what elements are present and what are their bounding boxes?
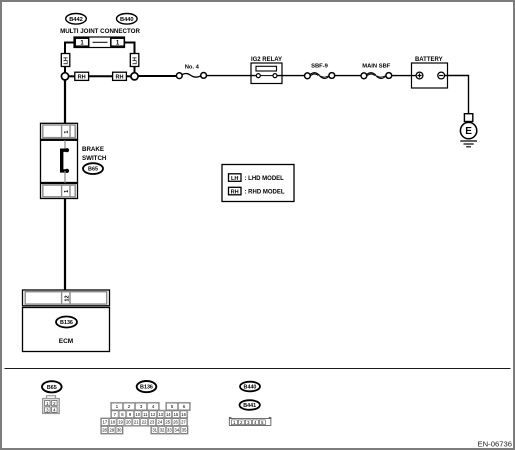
- fuse MAIN SBF label: [362, 63, 390, 69]
- connector B65 oval: [83, 163, 103, 174]
- wire MAIN SBF to battery: [392, 75, 416, 77]
- svg-text:25: 25: [165, 420, 170, 425]
- ECM connector pin 12: [23, 290, 110, 306]
- junction left: [61, 73, 68, 80]
- svg-text:16: 16: [181, 412, 186, 417]
- MJC pin 1 left: [75, 38, 89, 46]
- bottom connector B136 pinout: [101, 402, 191, 434]
- svg-text:EN-06736: EN-06736: [478, 439, 513, 448]
- fuse SBF-9: [305, 73, 335, 79]
- svg-text:: LHD MODEL: : LHD MODEL: [245, 176, 285, 182]
- svg-text:RH: RH: [115, 75, 123, 81]
- svg-text:29: 29: [110, 427, 115, 432]
- connector B442: [66, 13, 87, 24]
- ECM box: [23, 308, 110, 352]
- legend RH: [229, 187, 285, 195]
- svg-text:14: 14: [166, 412, 171, 417]
- wire RH1 to RH2: [89, 75, 113, 77]
- svg-text:6: 6: [183, 404, 186, 409]
- svg-text:19: 19: [118, 420, 123, 425]
- legend box: [222, 165, 294, 202]
- LH box right: [130, 54, 139, 67]
- bottom connector B440 oval: [240, 382, 260, 392]
- svg-text:31: 31: [152, 427, 157, 432]
- multi joint connector symbol: [74, 37, 125, 48]
- svg-text:32: 32: [160, 427, 165, 432]
- svg-text:B440: B440: [120, 17, 134, 23]
- brake switch contact: [62, 148, 69, 173]
- svg-text:12: 12: [151, 412, 156, 417]
- svg-text:LH: LH: [63, 57, 69, 64]
- svg-text:27: 27: [181, 420, 186, 425]
- svg-text:1: 1: [64, 131, 70, 134]
- svg-text:BRAKE: BRAKE: [82, 146, 104, 153]
- wire brake switch to ECM: [64, 199, 66, 292]
- RH box 1: [75, 72, 89, 81]
- brake switch top connector: [41, 123, 78, 139]
- svg-text:ECM: ECM: [59, 338, 73, 345]
- svg-text:B136: B136: [140, 385, 153, 391]
- wire fuse No.4 to IG2 relay: [207, 75, 257, 77]
- fuse No. 4 label: [185, 65, 200, 71]
- ground connector square: [464, 114, 472, 122]
- connector B440: [117, 13, 138, 24]
- svg-text:B441: B441: [243, 403, 256, 409]
- junction right: [131, 73, 138, 80]
- svg-text:15: 15: [174, 412, 179, 417]
- bottom connector B441 oval: [240, 400, 260, 410]
- bottom connector B65 pinout: [43, 396, 60, 414]
- svg-text:4: 4: [152, 404, 155, 409]
- svg-text:18: 18: [110, 420, 115, 425]
- svg-text:13: 13: [158, 412, 163, 417]
- svg-text:35: 35: [182, 427, 187, 432]
- brake switch internal lead bottom: [64, 171, 66, 184]
- svg-text:2: 2: [128, 404, 131, 409]
- svg-text:5: 5: [171, 404, 174, 409]
- IG2 relay label: [251, 57, 282, 63]
- relay U1 IG2 RELAY: [251, 63, 282, 84]
- RH box 2: [113, 72, 127, 81]
- wire junction left to RH box: [69, 75, 75, 77]
- svg-text:RH: RH: [231, 189, 239, 195]
- svg-text:26: 26: [173, 420, 178, 425]
- svg-text:E: E: [465, 126, 472, 137]
- svg-text:BATTERY: BATTERY: [415, 57, 443, 63]
- wire MJC left to LH box: [65, 43, 74, 54]
- ECM label: [59, 338, 73, 345]
- MJC pin 1 right: [111, 38, 125, 46]
- svg-text:1: 1: [116, 404, 119, 409]
- svg-text:: RHD MODEL: : RHD MODEL: [245, 190, 285, 196]
- svg-text:24: 24: [158, 420, 163, 425]
- wire RH2 to junction right: [126, 75, 130, 77]
- svg-text:B136: B136: [60, 320, 73, 326]
- svg-text:11: 11: [143, 412, 148, 417]
- svg-text:RH: RH: [78, 75, 86, 81]
- svg-text:B65: B65: [88, 167, 98, 173]
- svg-text:20: 20: [126, 420, 131, 425]
- ground E: [460, 122, 477, 146]
- wire LH left to junction: [64, 67, 66, 73]
- figure number EN-06736: [478, 439, 513, 448]
- fuse SBF-9 label: [311, 63, 329, 69]
- multi joint connector label: [60, 28, 140, 35]
- LH box left: [61, 54, 70, 67]
- brake switch body: [41, 140, 78, 182]
- svg-text:30: 30: [117, 427, 122, 432]
- brake switch bottom connector: [41, 184, 78, 199]
- brake switch label: [82, 146, 107, 162]
- svg-text:12: 12: [64, 295, 70, 301]
- wire LH right to junction: [134, 67, 136, 73]
- svg-text:23: 23: [150, 420, 155, 425]
- brake switch internal lead top: [64, 140, 66, 150]
- wire junction right to fuse No.4: [138, 75, 177, 77]
- svg-text:34: 34: [174, 427, 179, 432]
- battery label: [415, 57, 443, 63]
- bottom connector B65 oval: [42, 381, 62, 392]
- svg-text:B442: B442: [69, 17, 83, 23]
- bottom connector B441 pinout: [229, 417, 271, 425]
- svg-text:17: 17: [102, 420, 107, 425]
- wire MJC right to LH box: [125, 43, 135, 54]
- svg-text:22: 22: [142, 420, 147, 425]
- bottom connector B136 oval: [137, 381, 157, 392]
- legend LH: [229, 174, 285, 182]
- svg-text:LH: LH: [231, 176, 238, 182]
- wire junction left down to brake switch: [64, 80, 66, 124]
- fuse MAIN SBF: [361, 73, 392, 79]
- svg-text:10: 10: [135, 412, 140, 417]
- connector B136 oval: [56, 317, 77, 328]
- svg-text:SBF-9: SBF-9: [311, 63, 329, 69]
- svg-text:21: 21: [134, 420, 139, 425]
- svg-text:IG2 RELAY: IG2 RELAY: [251, 57, 282, 63]
- svg-text:33: 33: [167, 427, 172, 432]
- wire battery to ground: [445, 76, 469, 114]
- svg-text:1: 1: [64, 190, 70, 193]
- battery: [412, 63, 448, 88]
- svg-text:LH: LH: [132, 57, 138, 64]
- svg-text:No. 4: No. 4: [185, 65, 200, 71]
- wire SBF-9 to MAIN SBF: [335, 75, 362, 77]
- svg-text:MAIN SBF: MAIN SBF: [362, 63, 390, 69]
- svg-text:MULTI JOINT CONNECTOR: MULTI JOINT CONNECTOR: [60, 28, 140, 35]
- fuse No. 4: [176, 73, 206, 79]
- svg-text:28: 28: [102, 427, 107, 432]
- svg-text:B440: B440: [244, 385, 257, 391]
- svg-text:SWITCH: SWITCH: [82, 155, 107, 162]
- svg-text:3: 3: [140, 404, 143, 409]
- svg-text:B65: B65: [47, 385, 57, 391]
- wire IG2 relay to SBF-9: [277, 75, 305, 77]
